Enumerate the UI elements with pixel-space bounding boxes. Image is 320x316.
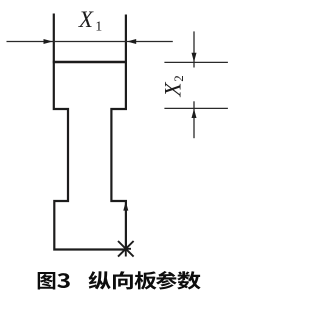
svg-text:X: X bbox=[161, 82, 186, 98]
svg-text:X: X bbox=[78, 7, 94, 32]
svg-text:1: 1 bbox=[95, 20, 102, 35]
svg-text:2: 2 bbox=[171, 75, 186, 82]
